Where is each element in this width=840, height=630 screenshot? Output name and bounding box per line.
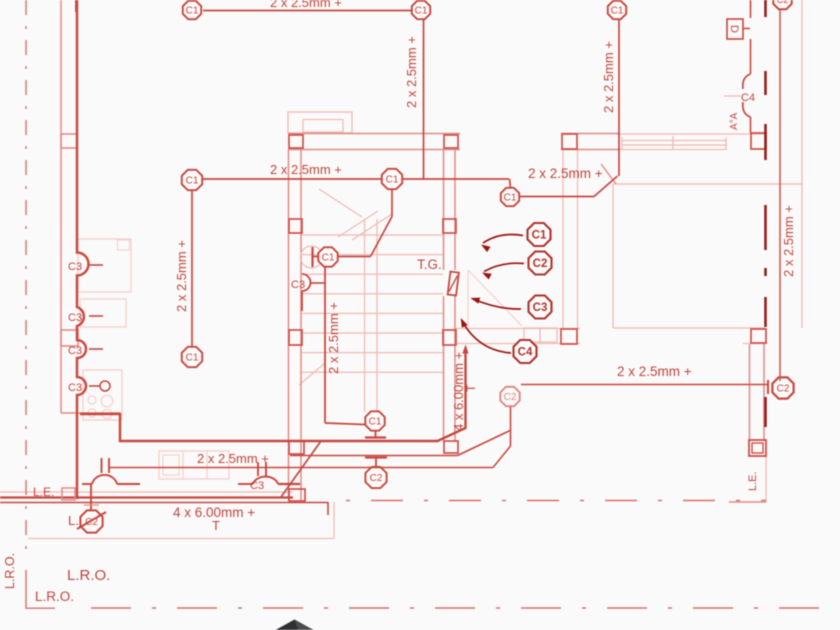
light C1 lower-left	[182, 347, 202, 367]
pendant C1 stem	[375, 432, 377, 438]
L.E. junction box	[62, 488, 75, 500]
switch C4 tick	[724, 95, 741, 97]
ceiling rose circle	[301, 246, 323, 268]
arrow to C3	[471, 298, 522, 309]
column D2	[444, 441, 458, 453]
plot line bottom-left	[28, 538, 334, 540]
switch C2 hall	[500, 387, 519, 406]
top wall inner right	[617, 133, 765, 135]
lamp bar	[311, 247, 313, 267]
column D1	[289, 441, 304, 454]
socket tick 1	[89, 264, 103, 266]
socket cooker prong 1	[101, 458, 103, 473]
bottom-left bracket vertical	[25, 570, 27, 609]
column E3	[751, 133, 766, 149]
panel octagon C2 (L.E.)	[80, 510, 102, 532]
svg-text:T: T	[212, 518, 220, 533]
wall hatch right 6	[764, 297, 767, 327]
closet outline top-center	[288, 112, 352, 133]
sill box 2	[540, 328, 557, 342]
stair tread 6	[302, 332, 443, 334]
wire y455	[290, 455, 458, 457]
switch C4 arc upper	[743, 74, 751, 89]
svg-text:A°A: A°A	[729, 112, 740, 130]
wall hatch left top	[75, 0, 78, 12]
svg-text:C3: C3	[68, 382, 82, 394]
column E2	[751, 329, 766, 343]
stove worktop	[83, 370, 122, 420]
hall wall line 1	[562, 150, 564, 328]
svg-text:C2: C2	[777, 0, 789, 5]
svg-text:2 x 2.5mm +: 2 x 2.5mm +	[197, 451, 269, 466]
column B1	[289, 219, 302, 233]
pendant C2 stem	[375, 458, 377, 467]
column C1s	[289, 330, 302, 345]
column A2	[444, 135, 458, 148]
svg-text:D: D	[728, 25, 740, 33]
svg-text:2 x 2.5mm +: 2 x 2.5mm +	[270, 0, 342, 10]
room outline right	[801, 0, 803, 328]
wire lamp to right	[338, 256, 371, 258]
feed branch diagonal	[281, 441, 321, 497]
right wall inner	[763, 344, 765, 441]
feed line LE lower	[0, 502, 328, 504]
svg-text:2 x 2.5mm +: 2 x 2.5mm +	[404, 36, 419, 108]
hall wall line 2	[577, 150, 579, 328]
column F outer	[749, 440, 766, 456]
svg-text:2 x 2.5mm +: 2 x 2.5mm +	[326, 302, 341, 374]
column B2	[443, 219, 456, 233]
mid wall bottom	[455, 343, 580, 345]
mid wall right top	[743, 343, 767, 345]
svg-text:L.E.: L.E.	[747, 471, 759, 491]
socket C3 kitchen prong 1	[257, 462, 259, 476]
right wall top segment 2	[750, 117, 752, 133]
sill box 1	[524, 328, 540, 342]
svg-text:C1: C1	[322, 253, 335, 264]
panel tiny mark	[84, 504, 99, 506]
arrow to C2	[482, 263, 524, 279]
room outline left	[612, 184, 614, 328]
stair tread 1	[302, 234, 443, 236]
light C1 top-mid	[412, 1, 430, 19]
column A1	[289, 135, 303, 148]
svg-text:2 x 2.5mm +: 2 x 2.5mm +	[781, 205, 796, 277]
stair stringer right	[376, 219, 378, 412]
svg-text:C3: C3	[250, 480, 264, 492]
wire drop x192	[191, 190, 193, 346]
svg-text:C1: C1	[186, 353, 199, 364]
light C1 top-right	[608, 1, 626, 19]
socket cooker bar right	[117, 483, 140, 485]
svg-text:L.R.O.: L.R.O.	[67, 567, 110, 584]
feed wire heavy	[80, 352, 466, 441]
stair landing diagonal	[319, 189, 362, 217]
sink tick	[89, 385, 100, 387]
stair tread 2	[302, 254, 443, 256]
svg-text:C1: C1	[186, 6, 199, 17]
window end tick right	[725, 137, 727, 149]
column F inner	[752, 443, 763, 453]
light C1 top-left	[183, 1, 201, 19]
stair tread 5	[302, 312, 443, 314]
kitchen counter top	[61, 412, 120, 414]
wall hatch right 4	[764, 205, 767, 250]
furniture desk left	[80, 299, 126, 327]
svg-text:C2: C2	[533, 258, 548, 270]
svg-text:C4: C4	[518, 347, 533, 359]
wall hatch right 3	[764, 124, 767, 160]
svg-text:L.E.: L.E.	[33, 485, 54, 499]
room outline bottom	[613, 327, 765, 329]
wire right vertical x780	[779, 7, 781, 381]
column D3	[289, 489, 305, 501]
switch C1 hall	[501, 188, 519, 206]
socket C3 kitchen bar right	[278, 483, 300, 485]
feed arrow up	[462, 345, 468, 354]
svg-text:C2: C2	[504, 392, 517, 403]
wire drop C2 switch	[510, 406, 512, 446]
svg-text:C3: C3	[68, 312, 82, 324]
pendant C1 bar	[365, 436, 386, 438]
stair stringer left	[364, 219, 366, 412]
furniture pillow	[118, 240, 130, 250]
right wall top segment 0	[750, 0, 752, 18]
wire top run	[203, 10, 411, 12]
wire y467	[110, 467, 493, 469]
light C1 mid-left	[182, 170, 202, 190]
svg-text:C2: C2	[777, 384, 790, 395]
right wall top segment 1	[750, 39, 752, 74]
panel strike diagonal	[77, 512, 106, 529]
wire row y179	[203, 178, 509, 180]
legend C3	[529, 296, 552, 319]
arrow to C4	[461, 318, 511, 353]
window line 1	[622, 140, 727, 142]
wire stub stair	[301, 291, 303, 311]
svg-text:C1: C1	[504, 193, 517, 204]
kitchen cabinet row	[159, 451, 229, 479]
wire to pendant C1	[325, 423, 365, 425]
window end tick left	[621, 137, 623, 149]
socket cooker arc	[92, 475, 117, 484]
legend C4	[514, 340, 537, 363]
plot line step vertical	[333, 502, 335, 539]
socket C3 kitchen prong 2	[265, 462, 267, 476]
column A3	[562, 134, 577, 149]
wire diagonal to x619	[594, 176, 618, 197]
wire diag y467	[493, 446, 511, 468]
pendant C2 bar	[365, 456, 387, 458]
svg-text:C3: C3	[68, 345, 82, 357]
arrow to C1	[481, 234, 523, 252]
light C1 mid	[382, 169, 402, 189]
wall column left upper	[61, 134, 77, 148]
stair break diagonal 2	[352, 214, 392, 240]
door leaf T.G.	[448, 272, 459, 296]
mid wall top	[455, 328, 580, 330]
svg-text:C3: C3	[291, 279, 305, 291]
svg-text:2 x 2.5mm +: 2 x 2.5mm +	[528, 166, 603, 181]
cabinet inner	[163, 455, 179, 475]
wall hatch right 1	[764, 0, 767, 17]
top wall lower right	[617, 149, 727, 151]
wire drop x325	[324, 267, 326, 423]
wall hatch right 7	[764, 397, 767, 427]
window mid tick	[672, 136, 674, 150]
svg-text:L.R.O.: L.R.O.	[3, 553, 17, 589]
wall hatch right 2	[764, 71, 767, 95]
svg-text:C1: C1	[369, 417, 382, 428]
feed stub down x328	[327, 502, 329, 515]
bracket bottom-right	[729, 501, 766, 503]
svg-text:C1: C1	[186, 176, 199, 187]
svg-text:C1: C1	[611, 6, 624, 17]
socket cooker bar left	[82, 483, 92, 485]
right C2 wall tick	[767, 380, 769, 394]
svg-text:C1: C1	[415, 6, 428, 17]
light C1 stair lamp	[318, 247, 337, 266]
door swing diagonal	[468, 270, 522, 326]
top wall band lower	[288, 149, 460, 151]
closet inner shelf	[303, 120, 343, 133]
bottom boundary dashed	[91, 607, 840, 609]
sink circle	[100, 381, 110, 391]
stair tread 3	[302, 273, 443, 275]
stair wall left inner	[300, 150, 302, 500]
svg-text:C3: C3	[533, 302, 548, 314]
socket tick 3	[89, 348, 103, 350]
legend C2	[529, 252, 552, 275]
socket cooker prong 2	[108, 458, 110, 473]
right wall outer	[749, 344, 751, 441]
feed line LE upper	[0, 496, 293, 498]
wire drop x423	[423, 19, 425, 179]
switch C4 arc lower	[743, 102, 751, 117]
svg-text:L.R.O.: L.R.O.	[35, 589, 74, 604]
stair lower diagonal	[299, 363, 325, 385]
wire left wall with socket bumps	[77, 0, 89, 499]
plot boundary left dashed	[25, 0, 27, 551]
socket C2 right wall	[772, 377, 793, 398]
stair tread 4	[302, 293, 443, 295]
pendant lamp C1	[365, 411, 384, 430]
watermark dark triangle	[276, 620, 314, 630]
stair break diagonal 1	[338, 211, 378, 237]
left wall outer	[60, 0, 62, 413]
socket C3 kitchen bar left	[238, 483, 253, 485]
wire to right C2	[521, 384, 767, 386]
wire diagonal stair	[371, 217, 393, 257]
svg-text:C2: C2	[370, 473, 383, 484]
stair wall right inner low	[454, 296, 456, 441]
cabinet divider 1	[182, 451, 184, 479]
bottom-left bracket horizontal	[26, 607, 55, 609]
stair tread 7	[302, 352, 443, 354]
wire socket to panel	[90, 484, 92, 510]
wire drop x619	[618, 20, 620, 176]
svg-text:2 x 2.5mm +: 2 x 2.5mm +	[617, 364, 692, 379]
pendant lamp C2	[365, 467, 386, 488]
svg-text:C1: C1	[532, 230, 547, 242]
socket C3 kitchen arc	[253, 477, 278, 484]
wall edge bottom-right	[765, 456, 767, 502]
socket C3 stair bump	[302, 274, 311, 291]
wire row y196	[520, 196, 594, 198]
legend C1	[528, 223, 551, 246]
svg-text:C1: C1	[386, 175, 399, 186]
wire diag to C2 switch	[458, 431, 511, 456]
mid boundary dashed	[346, 500, 766, 502]
detector D box	[727, 19, 743, 39]
svg-text:T: T	[464, 384, 478, 392]
svg-text:2 x 2.5mm +: 2 x 2.5mm +	[270, 162, 342, 177]
stair wall right outer	[443, 150, 445, 270]
room outline top	[613, 183, 802, 185]
stair wall right inner	[454, 150, 456, 270]
stair wall right outer low	[443, 296, 445, 441]
lamp link	[313, 256, 318, 258]
furniture bed left	[78, 239, 131, 292]
socket tick 2	[89, 315, 103, 317]
wall hatch right 5	[764, 268, 767, 276]
detector D tick	[743, 28, 750, 30]
svg-text:2 x 2.5mm +: 2 x 2.5mm +	[601, 41, 616, 113]
room corner chamfer	[601, 164, 616, 184]
top wall band lower r	[561, 149, 620, 151]
door swing chord	[467, 270, 469, 327]
svg-text:T.G.: T.G.	[417, 257, 442, 272]
svg-text:L.: L.	[68, 513, 79, 528]
stove burners	[88, 395, 113, 419]
cabinet divider 2	[206, 451, 208, 479]
wire return line	[0, 491, 293, 493]
window line 2	[622, 144, 727, 146]
socket C3 stair tick	[310, 282, 325, 284]
wall column left lower	[61, 330, 78, 346]
column C2s	[443, 330, 456, 345]
svg-text:C3: C3	[68, 261, 82, 273]
socket C2 top-right corner	[773, 0, 791, 9]
stair wall left outer	[288, 150, 290, 500]
column E1	[561, 329, 577, 344]
svg-text:2 x 2.5mm +: 2 x 2.5mm +	[174, 240, 189, 312]
top wall band upper	[288, 133, 460, 135]
wire drop x392	[391, 189, 393, 217]
top wall band upper r	[561, 133, 620, 135]
svg-text:C4: C4	[741, 92, 755, 104]
stair tread 8	[302, 371, 443, 373]
wire corner to C1 switch	[510, 179, 511, 188]
